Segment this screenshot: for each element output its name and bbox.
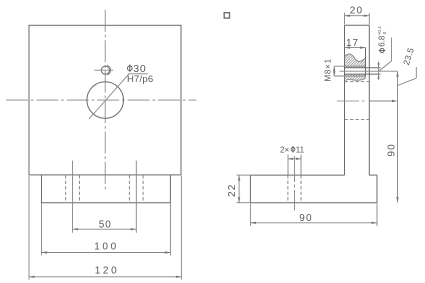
svg-text:0: 0: [382, 31, 387, 34]
svg-text:50: 50: [99, 219, 112, 230]
svg-text:22: 22: [227, 183, 238, 197]
svg-text:11: 11: [296, 145, 305, 154]
svg-text:20: 20: [350, 6, 364, 17]
svg-text:2×: 2×: [280, 145, 289, 154]
svg-text:23.5: 23.5: [401, 46, 416, 66]
svg-text:M8×1: M8×1: [323, 58, 332, 81]
svg-text:90: 90: [387, 143, 398, 157]
svg-text:120: 120: [95, 265, 120, 276]
svg-text:90: 90: [299, 213, 313, 224]
svg-text:6.8: 6.8: [378, 35, 387, 47]
svg-text:H7/p6: H7/p6: [127, 74, 153, 85]
svg-text:100: 100: [94, 241, 119, 252]
svg-text:17: 17: [346, 38, 359, 49]
